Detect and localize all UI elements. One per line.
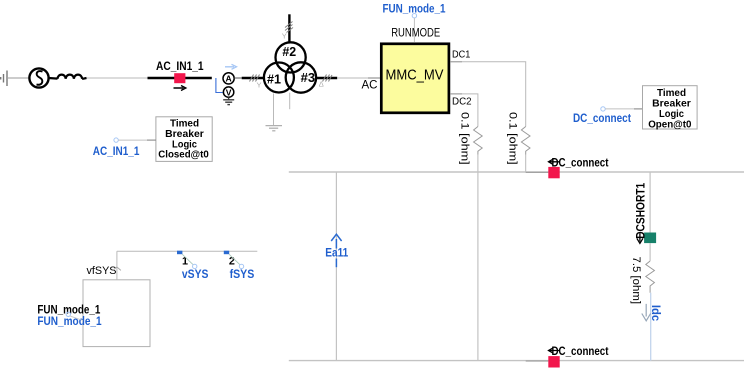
svg-text:Y: Y	[257, 81, 262, 90]
voltmeter V	[223, 87, 233, 97]
svg-text:Y: Y	[282, 32, 287, 41]
node tap 1 vSYS	[177, 251, 208, 282]
wire (Ea11 branch vertical)	[335, 172, 337, 361]
voltmeter label Ea11	[325, 234, 348, 267]
node DC_connect (signal label)	[573, 107, 643, 125]
wire	[234, 75, 265, 90]
timed breaker logic (open@t0)	[643, 86, 698, 131]
breaker AC_IN1_1	[148, 59, 212, 90]
svg-text:#3: #3	[301, 70, 316, 85]
svg-text:0.1 [ohm]: 0.1 [ohm]	[459, 112, 471, 165]
resistor R3 7.5 ohm	[630, 257, 655, 305]
wire (blue stub to voltmeter)	[216, 78, 223, 93]
svg-text:MMC_MV: MMC_MV	[386, 68, 444, 84]
wire (between green square and resistor)	[649, 243, 651, 261]
svg-text:V: V	[226, 87, 232, 97]
svg-text:DC_connect: DC_connect	[573, 111, 631, 125]
svg-text:Closed@t0: Closed@t0	[158, 149, 209, 161]
wire (DC2 branch continues to bottom bus)	[477, 172, 479, 361]
svg-text:AC: AC	[362, 80, 378, 92]
breaker DCSHORT1 (green)	[633, 183, 656, 244]
svg-text:DCSHORT1: DCSHORT1	[633, 183, 647, 239]
breaker DC_connect (top)	[548, 155, 608, 178]
svg-text:#1: #1	[267, 72, 281, 87]
wire	[87, 77, 148, 79]
transformer T1 (3 winding)	[264, 42, 316, 92]
wire (measurement, light blue)	[650, 293, 652, 361]
node AC_IN1_1 (signal label)	[93, 138, 156, 158]
svg-text:AC_IN1_1: AC_IN1_1	[93, 144, 140, 158]
svg-text:Idc: Idc	[649, 305, 663, 322]
wire	[8, 77, 30, 79]
ground GND3 (transformer)	[266, 126, 283, 131]
wire (transformer #3 to MMC AC)	[316, 75, 380, 89]
wire (DC1)	[451, 62, 526, 122]
timed breaker logic (closed@t0)	[156, 117, 212, 162]
wire (to ground from winding 1)	[273, 94, 275, 126]
ground GND2 (below voltmeter)	[223, 97, 234, 104]
svg-text:A: A	[225, 74, 231, 84]
node FUN_mode_1 (top)	[383, 1, 446, 42]
arrow (flow direction, light blue)	[225, 64, 237, 69]
resistor R2 0.1 ohm (right)	[506, 112, 530, 172]
svg-text:Δ: Δ	[319, 80, 324, 89]
node tap 2 fSYS	[224, 251, 255, 282]
svg-text:DC2: DC2	[452, 96, 472, 108]
wire (DC bus bottom)	[289, 360, 744, 362]
svg-text:AC_IN1_1: AC_IN1_1	[156, 59, 204, 73]
svg-text:RUNMODE: RUNMODE	[391, 28, 440, 40]
wire (DCSHORT1 vertical top)	[649, 172, 651, 233]
source S1	[29, 68, 48, 87]
component FUN block (vfSYS source)	[83, 251, 150, 346]
ammeter label Idc	[642, 304, 663, 322]
svg-text:0.1 [ohm]: 0.1 [ohm]	[506, 112, 518, 165]
svg-text:7.5 [ohm]: 7.5 [ohm]	[630, 257, 642, 305]
op-amp U1: MMC_MV converter block	[362, 28, 472, 113]
svg-text:DC_connect: DC_connect	[552, 344, 609, 358]
ground GND1 (left, rotated)	[1, 71, 7, 87]
wire (DC bus top)	[289, 171, 744, 173]
inductor L1	[49, 75, 87, 79]
svg-text:fSYS: fSYS	[230, 267, 255, 281]
svg-text:DC1: DC1	[452, 48, 471, 60]
ammeter A	[223, 73, 234, 84]
wire (DC2)	[451, 94, 478, 122]
resistor R1 0.1 ohm (left)	[459, 112, 483, 172]
wire (transformer top lead)	[282, 14, 293, 43]
svg-text:#2: #2	[282, 44, 296, 59]
wire (transformer neutral stub)	[289, 93, 291, 110]
svg-text:Open@t0: Open@t0	[648, 118, 691, 130]
node FUN_mode_1 (blue label)	[37, 312, 101, 328]
svg-text:vSYS: vSYS	[182, 267, 209, 281]
svg-text:vfSYS: vfSYS	[87, 265, 117, 277]
svg-text:DC_connect: DC_connect	[552, 155, 609, 169]
wire (vfSYS signal)	[117, 250, 257, 252]
breaker DC_connect (bottom)	[548, 344, 608, 368]
svg-text:Ea11: Ea11	[325, 246, 348, 260]
